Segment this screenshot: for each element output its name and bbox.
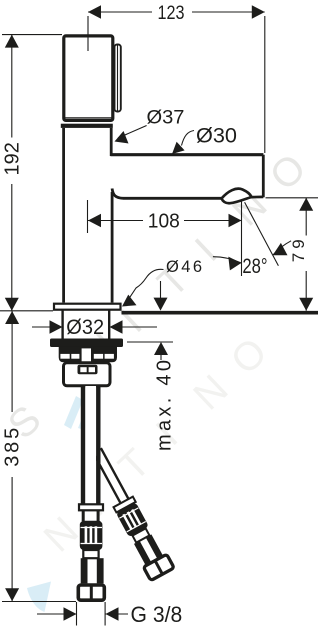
arrow max40 bottom [154,342,168,355]
dim 79 line [305,198,307,311]
dim 123 ext line left [87,16,89,51]
spout bottom + outlet lip [123,197,223,200]
dim 385 line [11,311,13,601]
arrow 79 bottom [299,298,313,311]
arrow 123 left [88,5,101,19]
spout top line [111,153,264,156]
arrow G38 left [64,607,77,621]
svg-text:28°: 28° [242,254,267,278]
dim O32 line [32,326,157,328]
body left edge [62,128,65,303]
svg-text:G 3/8: G 3/8 [131,602,183,627]
outlet lip lens shape [222,189,264,204]
collar 2 [83,550,98,558]
G38 ext lines [77,602,106,626]
dim 192 line [11,35,13,311]
dim 108 ext left [87,200,89,233]
dim 123 line [88,11,265,13]
body right edge lower [111,192,114,303]
arrowhead O46 [122,295,137,307]
collar 1 [79,504,103,510]
angle 28 line [245,202,279,266]
valve body box [64,363,111,386]
faucet handle [61,36,264,303]
svg-text:192: 192 [1,142,23,175]
dim 123 ext line right [264,16,266,153]
svg-text:Ø30: Ø30 [196,124,237,147]
leader O46 [126,269,164,303]
leader O37 [118,126,147,139]
dim 79 ext top [266,197,319,199]
svg-text:Ø37: Ø37 [147,108,185,129]
dim 108 line [88,220,242,222]
leader O30 [182,131,195,146]
vertical hose [79,386,103,521]
svg-text:Ø46: Ø46 [166,258,202,276]
max40 lower line [160,355,162,360]
angle arc left [213,257,241,263]
arrow 192 top [5,35,19,48]
diag corrugated [116,502,149,537]
arrow 123 right [252,5,265,19]
diag nut [143,554,174,580]
dim 385 ext bottom [2,601,76,603]
deck line left thin [0,310,53,312]
shank O32 [63,311,110,340]
arrow 385 bottom [5,588,19,601]
arrow angle left (pointing right at vertical line) [228,257,241,271]
dim G38 line [37,613,128,615]
arrow O32 right [110,320,123,334]
arrow 108 left [88,214,101,228]
body right edge upper [110,128,113,156]
washer (black bar) [50,339,123,348]
svg-text:123: 123 [158,2,185,24]
G38 nut [78,585,104,600]
svg-text:385: 385 [1,428,23,467]
arrow max40 top [154,298,168,311]
handle tab [115,45,121,112]
angle ref vertical line [241,200,243,276]
handle skirt line [64,117,113,119]
diag collar 2 [132,528,149,542]
deck underside ext [127,341,173,343]
svg-text:79: 79 [289,235,308,262]
max40 upper line [160,281,162,298]
dim 192 ext top [2,34,62,36]
angle arc right [273,241,291,255]
inner fitting [78,365,98,375]
deck line right thick [122,311,319,315]
pull rod guide tab [81,347,93,365]
arrow 108 right [229,214,242,228]
arrow O32 left [50,320,63,334]
braided tube [81,558,104,583]
svg-text:108: 108 [148,211,180,233]
watermark drop A [64,396,93,430]
arrowhead O30 [172,142,185,154]
diag braided tube [134,541,151,566]
arrow angle right (pointing down-left at angled line) [273,243,288,255]
joint ring [61,124,113,128]
serrated mounting nut [59,347,117,365]
body-spout fillet [112,189,123,199]
arrowhead O37 [115,131,129,144]
arrow 79 top [299,198,313,211]
spout end face [262,155,265,198]
watermark second row fragment [27,582,51,613]
svg-text:Ø32: Ø32 [66,315,104,339]
corrugated connector [80,521,103,550]
watermark SANITINO [0,146,315,612]
arrow G38 right [106,607,119,621]
diag collar 1 [114,497,136,513]
flange [54,304,121,310]
diagonal hose [84,445,174,581]
arrow 192 bottom + 385 top [5,298,19,311]
